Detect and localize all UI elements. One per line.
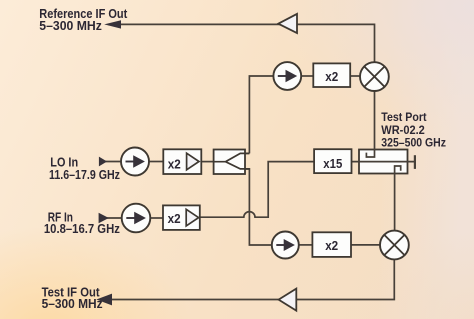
svg-text:5–300 MHz: 5–300 MHz <box>42 297 103 311</box>
mixer (bottom, test) <box>380 231 409 260</box>
multiplier-amplifier x2 (RF chain) <box>163 205 200 230</box>
arrowhead: Reference IF Out <box>104 20 121 28</box>
power splitter <box>214 150 250 175</box>
isolator (RF chain) <box>122 204 151 233</box>
waveguide port flange bar <box>414 155 416 169</box>
svg-text:5–300 MHz: 5–300 MHz <box>39 18 102 33</box>
wire: splitter upper branch <box>226 153 250 161</box>
isolator (LO chain) <box>121 148 149 176</box>
wire: LO x2 box to splitter <box>201 161 213 163</box>
svg-text:x15: x15 <box>323 156 342 171</box>
directional coupler test port box <box>359 150 408 174</box>
arrowhead: RF In <box>99 213 109 224</box>
svg-text:x2: x2 <box>325 238 338 253</box>
multiplier x2 (top chain) <box>313 63 350 87</box>
svg-text:WR-02.2: WR-02.2 <box>381 125 425 137</box>
wire: top isolator to x2 box <box>301 75 313 77</box>
wire: x15 through coupler to waveguide port <box>352 161 415 163</box>
multiplier x15 <box>314 149 351 173</box>
isolator (top chain) <box>273 62 301 90</box>
wire: RF x2 box right, hop over LO line, up to x15 <box>200 162 314 218</box>
svg-text:Test Port: Test Port <box>381 112 426 124</box>
isolator (bottom chain) <box>272 232 299 259</box>
wire: bottom mixer down and left to test IF arrow <box>106 259 394 299</box>
wire: reference IF line from arrow to top-right corner down to mixer <box>108 24 375 62</box>
wire: RF input arrow to isolator <box>105 217 122 219</box>
arrowhead: Test IF Out <box>96 294 112 306</box>
amplifier (left-pointing, test IF path) <box>279 289 297 311</box>
svg-text:11.6–17.9 GHz: 11.6–17.9 GHz <box>49 168 120 182</box>
mixer (top, reference) <box>360 62 389 91</box>
svg-text:325–500 GHz: 325–500 GHz <box>381 138 446 150</box>
wire: top x2 box to mixer <box>350 75 360 77</box>
multiplier x2 (bottom chain) <box>312 232 351 257</box>
wire: LO isolator to x2 box <box>149 161 163 163</box>
wire: splitter internal chevron input <box>214 161 226 163</box>
amplifier (left-pointing, reference IF path) <box>278 14 297 33</box>
wire: top mixer down into coupler with hook <box>366 91 374 157</box>
svg-text:x2: x2 <box>325 69 338 84</box>
wire: coupler bottom hook down to bottom mixer <box>395 166 401 230</box>
wire: bottom x2 box to mixer <box>351 244 380 246</box>
wire: splitter lower branch down to bottom chain isolator <box>226 162 273 245</box>
wire: LO input arrow to isolator <box>105 161 121 163</box>
arrowhead: LO In <box>99 157 107 167</box>
svg-text:x2: x2 <box>168 211 181 226</box>
svg-text:10.8–16.7 GHz: 10.8–16.7 GHz <box>44 222 120 236</box>
wire: LO splitter top branch up to top chain, to isolator <box>249 76 273 153</box>
wire: RF isolator to x2 box <box>150 217 163 219</box>
wire: bottom chain isolator to x2 box <box>299 244 313 246</box>
multiplier-amplifier x2 (LO chain) <box>163 149 201 174</box>
svg-text:x2: x2 <box>168 156 181 171</box>
